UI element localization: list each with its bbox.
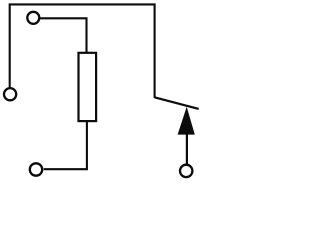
terminal bottom-left xyxy=(30,163,42,175)
actuator arrow xyxy=(178,107,195,135)
resistor R1 xyxy=(79,53,97,121)
wire xyxy=(40,18,87,53)
terminal left xyxy=(4,88,16,100)
switch blade S1 xyxy=(155,97,199,109)
wire xyxy=(10,4,155,98)
terminal top-left xyxy=(27,12,39,24)
terminal bottom-right xyxy=(180,165,192,177)
wire xyxy=(186,134,188,165)
wire xyxy=(44,122,87,170)
